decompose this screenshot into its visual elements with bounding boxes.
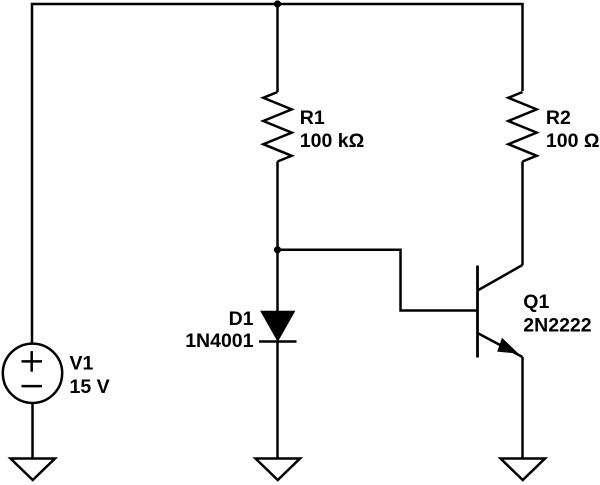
wire: R1 bottom to diode top (276, 162, 279, 312)
diode D1 (259, 311, 297, 341)
wire: R2 bottom to collector (521, 162, 524, 266)
svg-text:D1: D1 (229, 308, 254, 330)
svg-text:R1: R1 (300, 107, 325, 129)
svg-text:100 Ω: 100 Ω (546, 130, 600, 152)
svg-text:1N4001: 1N4001 (185, 330, 253, 352)
emitter arrow (497, 338, 518, 354)
ground (middle) (256, 459, 301, 481)
node: top junction dot (274, 0, 281, 7)
emitter lead (478, 333, 523, 357)
wire: diode to ground (276, 342, 279, 459)
svg-text:2N2222: 2N2222 (523, 315, 591, 337)
node: base junction dot (274, 246, 281, 253)
plus sign (22, 360, 43, 363)
ground (left) (11, 459, 56, 481)
svg-text:R2: R2 (546, 107, 571, 129)
svg-text:15 V: 15 V (70, 376, 110, 398)
resistor R2 (508, 92, 536, 162)
svg-text:V1: V1 (70, 353, 94, 375)
collector lead (478, 265, 523, 291)
svg-text:Q1: Q1 (523, 291, 549, 313)
svg-text:100 kΩ: 100 kΩ (300, 130, 364, 152)
minus sign (22, 385, 43, 388)
wire: left rail + top rail + right rail top (32, 4, 523, 343)
ground (right) (501, 459, 546, 481)
voltage source V1 (3, 344, 62, 403)
wire: emitter to ground (521, 357, 524, 459)
transistor Q1 (478, 265, 523, 358)
wire: V1 to ground (31, 403, 34, 459)
wire: top of R1 branch (276, 4, 279, 92)
wire: junction to transistor base (278, 250, 478, 311)
base bar (476, 266, 479, 358)
resistor R1 (263, 92, 291, 162)
